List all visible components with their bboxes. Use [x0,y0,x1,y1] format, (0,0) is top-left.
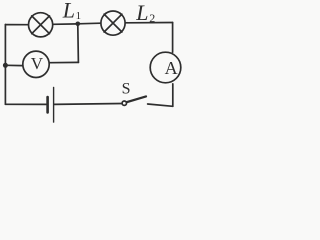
svg-text:L: L [135,0,148,25]
wire left vertical [4,25,6,105]
svg-text:S: S [122,81,131,98]
svg-text:A: A [165,58,178,78]
wire bottom-left horizontal [5,103,46,105]
wire junction to L2 [78,22,101,25]
svg-text:2: 2 [149,11,155,25]
switch S pivot [122,101,126,105]
wire top-right vertical down to ammeter [172,23,174,53]
wire L1 to junction [53,23,78,25]
svg-text:V: V [31,54,44,73]
wire L2 to top-right corner [126,22,173,24]
lamp L1 [28,13,52,37]
voltmeter V circle [23,51,49,77]
svg-text:1: 1 [76,10,82,22]
node dot on left wire [3,63,8,68]
battery cell long plate [53,87,55,122]
node junction A [76,22,81,27]
switch S lever [127,96,147,102]
wire below ammeter vertical [172,84,174,107]
wire bottom-right horizontal [148,104,173,106]
svg-text:L: L [62,0,75,23]
battery cell short thick plate [46,97,49,112]
wire battery to switch [54,103,122,106]
op: ammeter A1 circle [150,52,181,83]
wire voltmeter right [50,61,79,63]
wire top-left horizontal [5,24,28,26]
lamp L2 [101,11,125,35]
wire voltmeter branch vertical up [77,26,80,63]
wire node to voltmeter [7,64,23,66]
